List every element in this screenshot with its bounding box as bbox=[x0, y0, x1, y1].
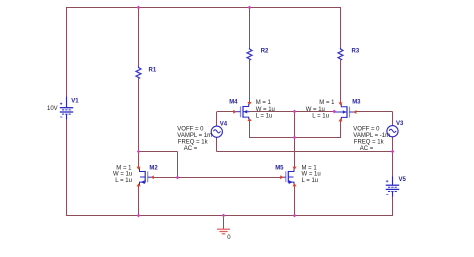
svg-text:W = 1u: W = 1u bbox=[302, 172, 321, 178]
svg-text:W = 1u: W = 1u bbox=[256, 107, 275, 113]
svg-text:L = 1u: L = 1u bbox=[302, 178, 319, 184]
svg-text:L = 1u: L = 1u bbox=[312, 114, 329, 120]
svg-text:VOFF = 0: VOFF = 0 bbox=[353, 127, 380, 133]
svg-text:VOFF = 0: VOFF = 0 bbox=[177, 127, 204, 133]
svg-text:L = 1u: L = 1u bbox=[115, 178, 132, 184]
svg-text:VAMPL = 1m: VAMPL = 1m bbox=[177, 133, 212, 139]
svg-text:L = 1u: L = 1u bbox=[256, 114, 273, 120]
svg-text:FREQ = 1k: FREQ = 1k bbox=[178, 140, 209, 146]
svg-text:VAMPL = -1m: VAMPL = -1m bbox=[353, 133, 390, 139]
svg-text:V3: V3 bbox=[396, 121, 404, 127]
svg-text:10V: 10V bbox=[47, 106, 58, 112]
svg-text:FREQ = 1k: FREQ = 1k bbox=[354, 140, 385, 146]
svg-text:M = 1: M = 1 bbox=[302, 166, 318, 172]
svg-text:V1: V1 bbox=[71, 98, 79, 104]
svg-text:R1: R1 bbox=[149, 68, 157, 74]
svg-text:R2: R2 bbox=[261, 49, 269, 55]
svg-text:W = 1u: W = 1u bbox=[113, 172, 132, 178]
svg-text:AC =: AC = bbox=[184, 146, 198, 152]
svg-text:M3: M3 bbox=[352, 100, 361, 106]
svg-text:M2: M2 bbox=[149, 165, 158, 171]
svg-text:M4: M4 bbox=[229, 100, 238, 106]
svg-text:M = 1: M = 1 bbox=[116, 166, 132, 172]
svg-text:R3: R3 bbox=[352, 49, 360, 55]
svg-text:V4: V4 bbox=[220, 121, 228, 127]
svg-text:AC =: AC = bbox=[360, 146, 374, 152]
svg-text:V5: V5 bbox=[399, 177, 407, 183]
svg-text:0: 0 bbox=[227, 235, 231, 241]
svg-text:M5: M5 bbox=[275, 166, 284, 172]
svg-text:M = 1: M = 1 bbox=[319, 100, 335, 106]
svg-text:M = 1: M = 1 bbox=[256, 100, 272, 106]
svg-text:W = 1u: W = 1u bbox=[306, 107, 325, 113]
